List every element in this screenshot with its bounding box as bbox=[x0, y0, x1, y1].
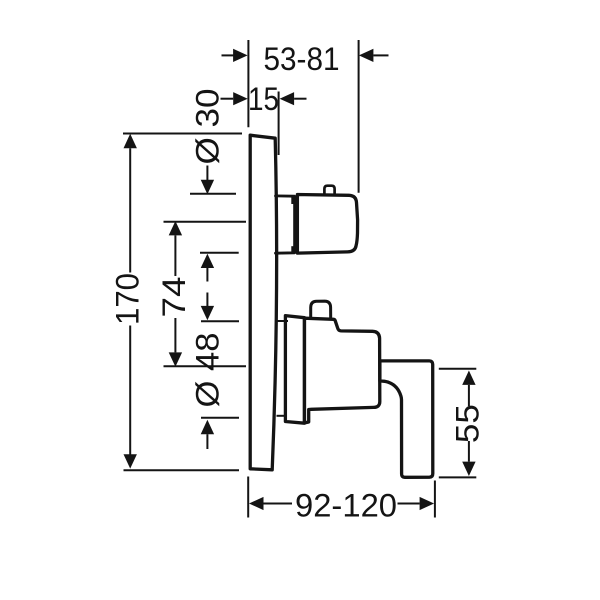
label O30 bbox=[189, 89, 225, 165]
volume handle button bbox=[324, 186, 334, 195]
label 15 bbox=[248, 81, 279, 117]
volume control handle bbox=[297, 195, 357, 254]
label O48 bbox=[189, 333, 225, 408]
thermostat flange bbox=[285, 316, 304, 424]
svg-text:92-120: 92-120 bbox=[295, 487, 397, 523]
dimension 55 bbox=[439, 369, 477, 478]
svg-text:170: 170 bbox=[110, 273, 146, 325]
dimension 53-81 bbox=[222, 40, 389, 193]
label 53-81 bbox=[264, 41, 340, 77]
svg-text:15: 15 bbox=[248, 81, 279, 117]
label 92-120 bbox=[295, 487, 397, 523]
svg-text:74: 74 bbox=[156, 277, 192, 318]
dimension 74 bbox=[164, 221, 247, 367]
lever handle bbox=[380, 361, 433, 477]
dimension 15 bbox=[221, 92, 307, 156]
escutcheon plate bbox=[250, 135, 276, 470]
dimension O48 bbox=[201, 293, 288, 450]
upper valve sleeve bbox=[276, 196, 296, 253]
dimension 170 bbox=[123, 134, 242, 471]
thermostat body bbox=[305, 318, 380, 423]
dimension O30 bbox=[190, 166, 239, 282]
svg-text:55: 55 bbox=[450, 404, 486, 443]
dimension 92-120 bbox=[248, 477, 435, 518]
svg-text:53-81: 53-81 bbox=[264, 41, 340, 77]
label 170 bbox=[110, 273, 146, 325]
thermostat dome button bbox=[311, 301, 331, 319]
label 74 bbox=[156, 277, 192, 318]
label 55 bbox=[450, 404, 486, 443]
svg-text:Ø 30: Ø 30 bbox=[189, 89, 225, 165]
svg-text:Ø 48: Ø 48 bbox=[189, 333, 225, 408]
